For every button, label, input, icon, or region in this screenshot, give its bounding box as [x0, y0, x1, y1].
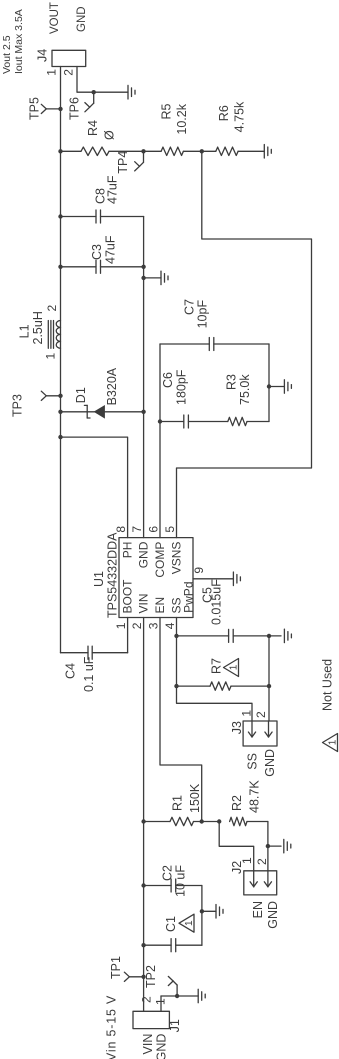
svg-text:4.75k: 4.75k [233, 101, 247, 132]
svg-text:2: 2 [45, 305, 59, 312]
svg-text:J4: J4 [36, 49, 50, 62]
svg-text:R3: R3 [224, 374, 238, 390]
svg-text:1: 1 [240, 710, 254, 717]
svg-text:C7: C7 [182, 299, 196, 315]
svg-text:Vout 2.5: Vout 2.5 [1, 35, 13, 74]
svg-text:4: 4 [163, 622, 177, 629]
svg-text:2: 2 [254, 711, 268, 718]
svg-text:TP6: TP6 [68, 97, 82, 120]
svg-text:8: 8 [114, 526, 128, 533]
svg-text:R5: R5 [160, 103, 174, 119]
svg-text:BOOT: BOOT [120, 579, 134, 614]
svg-text:R6: R6 [217, 105, 231, 121]
svg-text:2.5uH: 2.5uH [31, 311, 45, 344]
svg-text:9: 9 [192, 567, 206, 574]
svg-text:GND: GND [155, 1034, 169, 1059]
svg-text:2: 2 [130, 622, 144, 629]
svg-text:7: 7 [130, 526, 144, 533]
svg-text:1: 1 [184, 920, 195, 926]
svg-text:VIN: VIN [136, 593, 150, 613]
svg-text:J1: J1 [168, 1019, 182, 1032]
svg-text:R2: R2 [230, 795, 244, 811]
svg-text:C3: C3 [90, 244, 104, 260]
svg-text:SS: SS [245, 753, 259, 770]
svg-text:U1: U1 [92, 571, 106, 587]
svg-text:COMP: COMP [153, 542, 167, 578]
svg-text:10 uF: 10 uF [174, 865, 188, 897]
svg-text:0.1 uF: 0.1 uF [82, 656, 96, 692]
svg-text:1: 1 [45, 69, 59, 76]
svg-text:Ø: Ø [103, 130, 117, 140]
svg-text:C2: C2 [161, 865, 175, 881]
svg-text:47uF: 47uF [106, 175, 120, 204]
svg-text:1: 1 [114, 622, 128, 629]
svg-text:47uF: 47uF [104, 235, 118, 264]
svg-text:GND: GND [76, 6, 88, 32]
svg-text:TP2: TP2 [144, 965, 158, 988]
svg-text:EN: EN [251, 901, 265, 918]
svg-text:TP5: TP5 [28, 97, 42, 120]
svg-text:180pF: 180pF [175, 369, 189, 405]
svg-text:1: 1 [44, 353, 58, 360]
svg-text:J3: J3 [230, 721, 244, 734]
svg-text:3: 3 [147, 622, 161, 629]
svg-text:PwPd: PwPd [181, 582, 195, 613]
svg-text:GND: GND [136, 541, 150, 568]
svg-text:75.0k: 75.0k [238, 374, 252, 405]
svg-text:Iout Max 3.5A: Iout Max 3.5A [13, 9, 25, 74]
svg-text:10.2k: 10.2k [175, 103, 189, 134]
svg-text:150K: 150K [188, 783, 202, 813]
svg-text:B320A: B320A [105, 367, 119, 405]
svg-text:C1: C1 [164, 916, 178, 932]
svg-text:VIN: VIN [141, 1034, 155, 1055]
svg-text:48.7K: 48.7K [248, 780, 262, 813]
svg-text:TP4: TP4 [116, 151, 130, 174]
svg-text:R1: R1 [171, 795, 185, 811]
svg-text:Not Used: Not Used [321, 659, 335, 711]
svg-text:Vin 5-15 V: Vin 5-15 V [105, 995, 119, 1059]
svg-text:1: 1 [154, 998, 168, 1005]
svg-text:2: 2 [140, 996, 154, 1003]
svg-text:6: 6 [147, 526, 161, 533]
svg-text:C4: C4 [64, 663, 78, 679]
svg-text:10pF: 10pF [196, 300, 210, 329]
svg-text:TP3: TP3 [11, 394, 25, 417]
svg-text:L1: L1 [18, 324, 32, 338]
svg-text:VOUT: VOUT [49, 2, 61, 34]
svg-text:1: 1 [240, 857, 254, 864]
svg-text:1: 1 [328, 739, 339, 745]
svg-text:2: 2 [62, 69, 76, 76]
svg-text:R7: R7 [210, 658, 224, 674]
svg-text:1: 1 [229, 664, 240, 670]
svg-text:GND: GND [266, 901, 280, 929]
svg-text:GND: GND [263, 749, 277, 777]
svg-text:C6: C6 [161, 372, 175, 388]
svg-text:EN: EN [153, 597, 167, 614]
svg-text:0.015uF: 0.015uF [209, 579, 223, 625]
svg-text:D1: D1 [74, 387, 88, 403]
svg-text:2: 2 [255, 858, 269, 865]
svg-text:5: 5 [163, 526, 177, 533]
svg-text:VSNS: VSNS [169, 542, 183, 575]
svg-text:PH: PH [120, 542, 134, 559]
svg-text:R4: R4 [86, 120, 100, 136]
svg-text:TP1: TP1 [109, 956, 123, 979]
svg-text:TPS54332DDA: TPS54332DDA [106, 532, 120, 618]
